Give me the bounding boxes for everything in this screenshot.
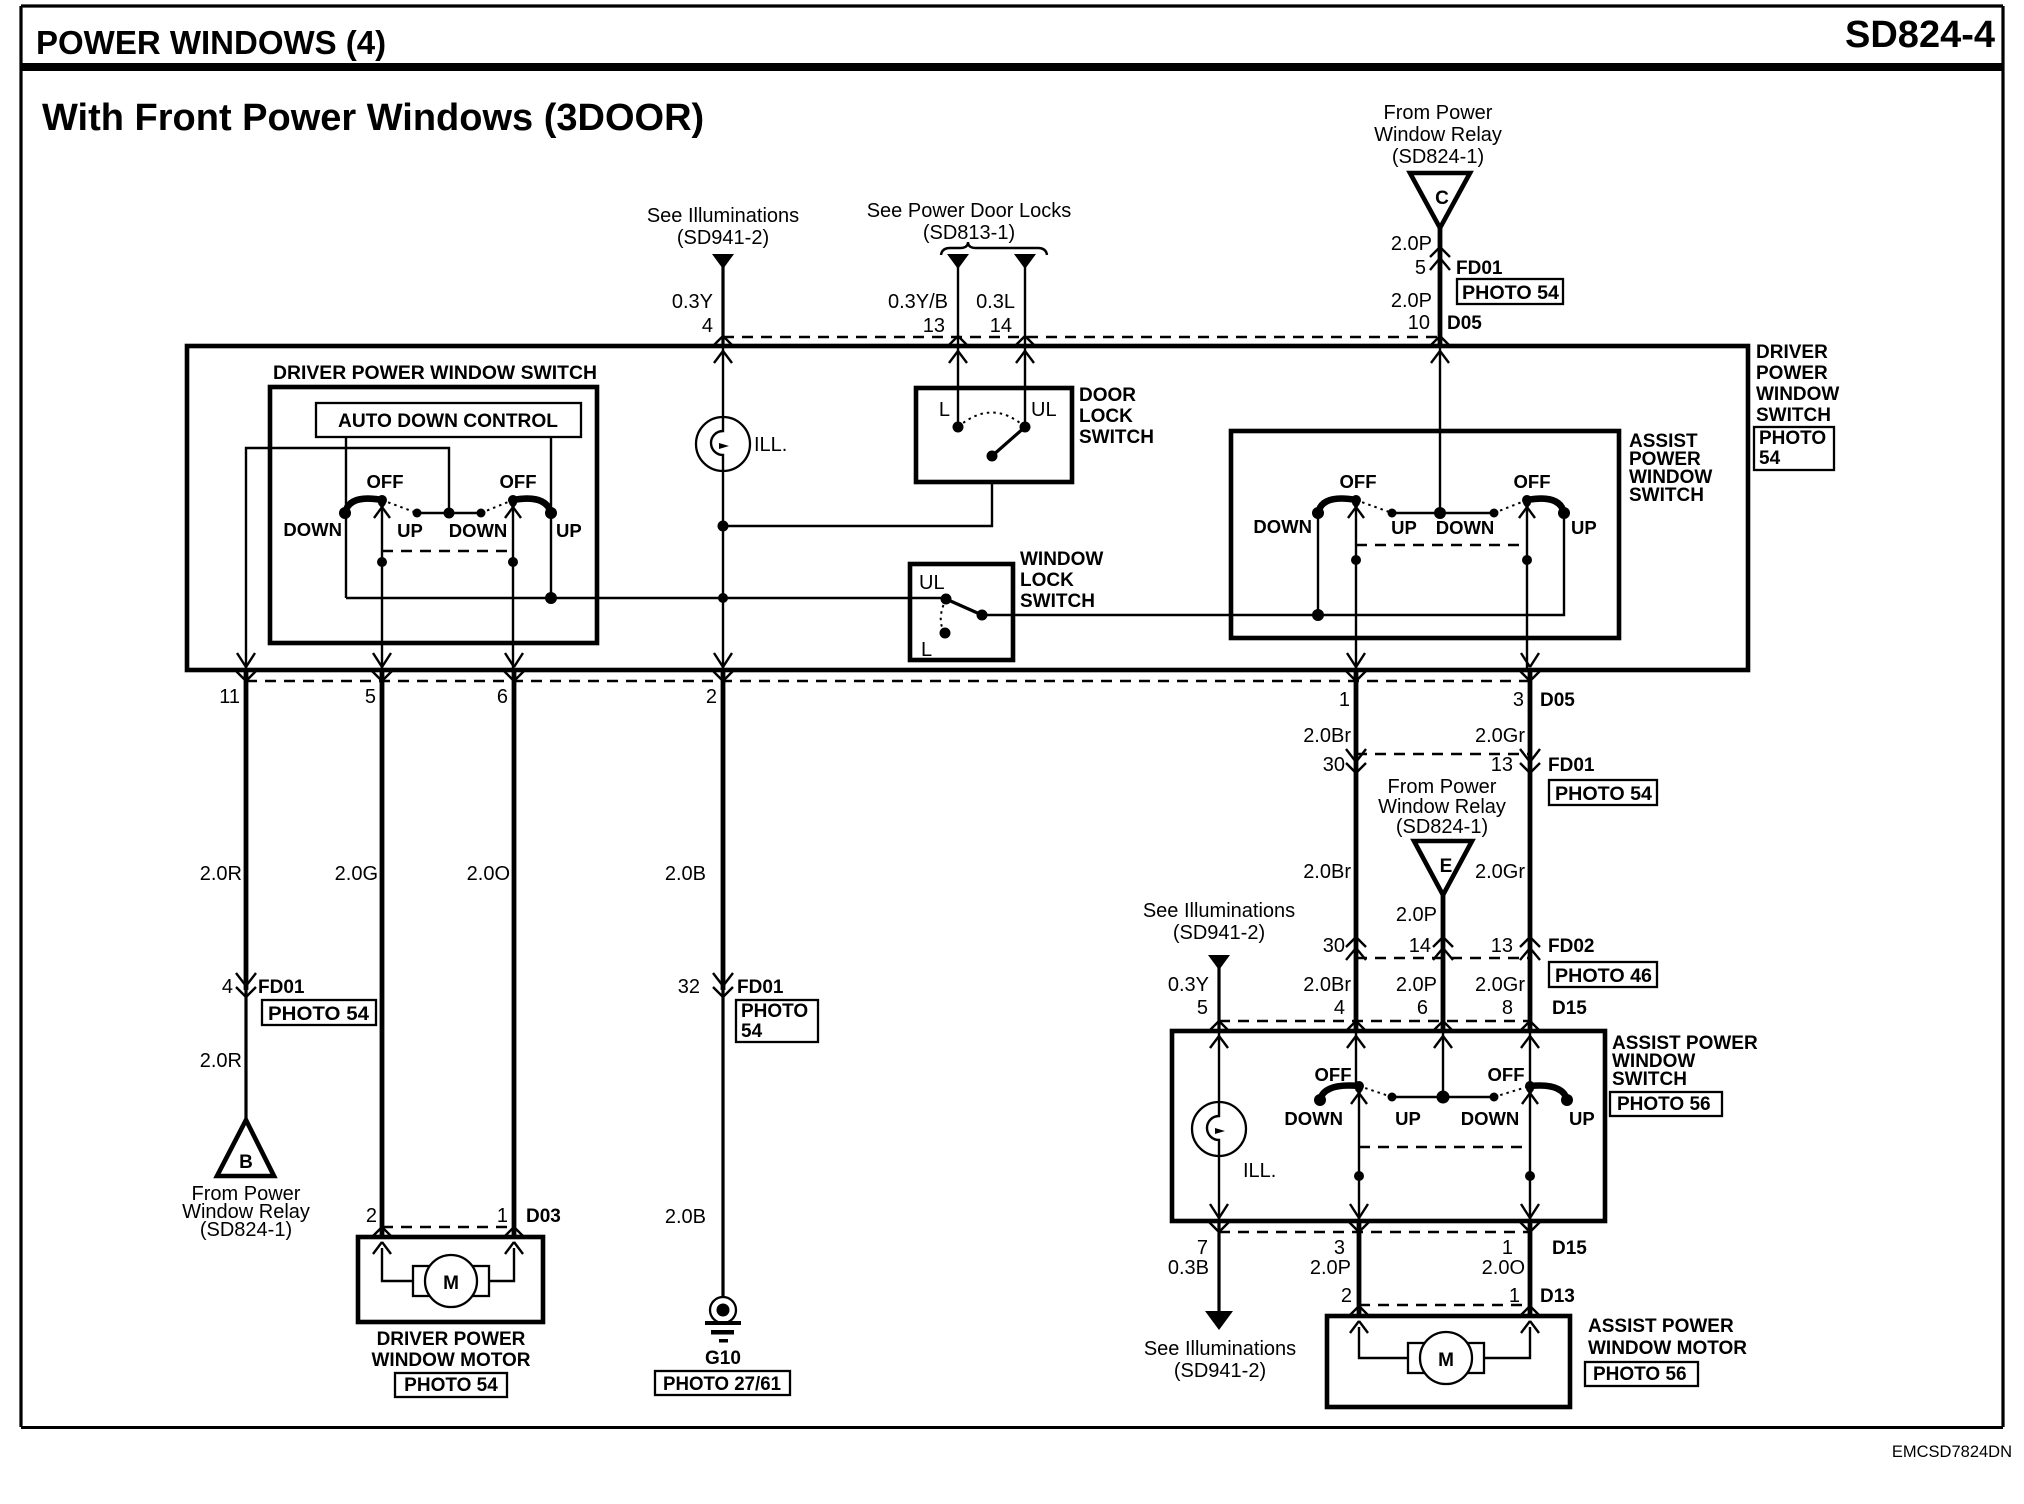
L contact dot (940, 628, 951, 639)
svg-text:7: 7 (1197, 1237, 1208, 1259)
up contact dot (1558, 507, 1570, 519)
svg-text:PHOTO 54: PHOTO 54 (1462, 283, 1559, 304)
off pivot dot (508, 495, 518, 505)
dashed throw arc (958, 413, 1025, 428)
svg-text:DRIVER POWER WINDOW SWITCH: DRIVER POWER WINDOW SWITCH (273, 363, 597, 384)
dashed throw arc (941, 599, 946, 633)
svg-text:DOOR: DOOR (1079, 385, 1136, 406)
svg-text:1: 1 (1509, 1285, 1520, 1307)
svg-text:2: 2 (706, 686, 717, 708)
wire rocker1 off to pin 5 (381, 500, 383, 670)
wire to window lock switch UL (346, 597, 946, 599)
svg-text:PHOTO 54: PHOTO 54 (404, 1375, 498, 1396)
entry connector pin 4 (712, 336, 734, 363)
photo 56 box (motor) (1585, 1362, 1698, 1386)
wire off1 to pin 3 (1358, 1086, 1360, 1221)
wire 2.0R pin 11 (244, 670, 249, 990)
svg-text:M: M (443, 1273, 459, 1294)
off pivot dot (1351, 495, 1361, 505)
svg-text:UP: UP (397, 520, 423, 541)
wire 2.0O pin 6 (512, 670, 517, 1237)
svg-text:2.0Br: 2.0Br (1303, 861, 1351, 883)
svg-text:32: 32 (678, 976, 700, 998)
photo 56 box (switch) (1610, 1092, 1722, 1116)
connector FD01 pin 13 (1520, 749, 1540, 773)
svg-text:0.3Y/B: 0.3Y/B (888, 291, 948, 313)
svg-text:54: 54 (741, 1021, 763, 1042)
inner box (270, 387, 597, 643)
svg-text:54: 54 (1759, 448, 1781, 469)
wire 0.3Y to pin 4 (721, 266, 724, 346)
svg-text:AUTO DOWN CONTROL: AUTO DOWN CONTROL (338, 411, 558, 432)
switch arm (992, 427, 1025, 456)
svg-text:2.0Br: 2.0Br (1303, 725, 1351, 747)
dashed connector line FD01 (1356, 753, 1530, 755)
wire 2.0P pin 3 to motor (1357, 1221, 1362, 1316)
wire pin 4 to off1 (1355, 1033, 1357, 1086)
svg-text:2.0O: 2.0O (467, 863, 510, 885)
entry connector pin 13 (947, 336, 969, 363)
svg-text:OFF: OFF (1514, 471, 1551, 492)
down contact dot (477, 509, 486, 518)
wire 2.0Br pin 1 (1354, 670, 1359, 1031)
photo 54 box (motor) (395, 1373, 507, 1397)
svg-text:2.0G: 2.0G (335, 863, 378, 885)
svg-text:30: 30 (1323, 754, 1345, 776)
photo 54 box (driver switch) (1754, 427, 1834, 470)
relay triangle E (1414, 841, 1472, 895)
common contact dot (977, 610, 988, 621)
svg-text:UP: UP (1571, 517, 1597, 538)
svg-text:2.0P: 2.0P (1396, 904, 1437, 926)
svg-text:3: 3 (1334, 1237, 1345, 1259)
motor M circle (425, 1255, 477, 1307)
svg-text:D05: D05 (1447, 313, 1482, 334)
wire 0.3Y to pin 5 (1217, 967, 1220, 1031)
arrow from illuminations (712, 254, 734, 269)
svg-text:2.0P: 2.0P (1391, 233, 1432, 255)
svg-text:SWITCH: SWITCH (1079, 427, 1154, 448)
svg-text:14: 14 (990, 315, 1012, 337)
svg-text:OFF: OFF (1340, 471, 1377, 492)
svg-text:D03: D03 (526, 1206, 561, 1227)
wire rocker1 off to pin 1 (1355, 500, 1357, 670)
svg-text:2.0Gr: 2.0Gr (1475, 974, 1525, 996)
svg-text:C: C (1435, 188, 1449, 209)
wire 2.0B pin 2 (721, 670, 726, 990)
svg-text:DRIVER: DRIVER (1756, 342, 1828, 363)
svg-text:5: 5 (1197, 997, 1208, 1019)
svg-text:OFF: OFF (1488, 1064, 1525, 1085)
svg-text:M: M (1438, 1350, 1454, 1371)
entry connector pin 10 (1429, 336, 1451, 363)
UL contact dot (1020, 422, 1031, 433)
svg-text:G10: G10 (705, 1348, 741, 1369)
entry connector pin 2 (371, 1227, 393, 1254)
photo 54 box (FD01 ground wire) (736, 1000, 818, 1042)
svg-text:14: 14 (1409, 935, 1431, 957)
svg-text:13: 13 (923, 315, 945, 337)
wire pin11 feed link (246, 448, 449, 670)
arrow power door locks wire 13 (947, 254, 969, 269)
rocker switch 2 (assist, driver side) (1440, 512, 1494, 514)
svg-text:DOWN: DOWN (1253, 516, 1312, 537)
arrow from illuminations mid (1208, 955, 1230, 970)
svg-text:PHOTO 27/61: PHOTO 27/61 (663, 1374, 781, 1395)
svg-text:UP: UP (556, 520, 582, 541)
svg-text:8: 8 (1502, 997, 1513, 1019)
UL contact dot (941, 594, 952, 605)
wire pin 8 to off2 (1529, 1033, 1531, 1086)
connector FD01 pin 32 (713, 973, 733, 997)
svg-text:ILL.: ILL. (754, 434, 787, 456)
svg-text:2: 2 (366, 1205, 377, 1227)
svg-text:(SD824-1): (SD824-1) (200, 1219, 292, 1241)
brace under door locks label (941, 242, 1047, 255)
svg-text:UP: UP (1391, 517, 1417, 538)
svg-text:DOWN: DOWN (449, 520, 508, 541)
wire 2.0G pin 5 (380, 670, 385, 1237)
entry connector pin 1 (1519, 1306, 1541, 1333)
svg-text:(SD824-1): (SD824-1) (1392, 146, 1484, 168)
svg-text:1: 1 (1339, 689, 1350, 711)
svg-text:2.0B: 2.0B (665, 863, 706, 885)
svg-text:UL: UL (1031, 399, 1057, 421)
arrow power door locks wire 14 (1014, 254, 1036, 269)
rocker arm arc (345, 499, 382, 513)
svg-text:DOWN: DOWN (283, 519, 342, 540)
svg-text:PHOTO 56: PHOTO 56 (1593, 1364, 1687, 1385)
motor brush left (413, 1266, 432, 1296)
off pivot dot (1522, 495, 1532, 505)
svg-text:11: 11 (219, 686, 240, 708)
wire rocker2 off to pin 3 (1526, 500, 1528, 670)
wire down contact to lock line (1317, 513, 1319, 615)
up contact dot (1388, 509, 1397, 518)
svg-text:E: E (1440, 856, 1453, 877)
off pivot dot (377, 495, 387, 505)
svg-text:With Front Power Windows (3DOO: With Front Power Windows (3DOOR) (42, 97, 704, 139)
svg-text:LOCK: LOCK (1020, 570, 1074, 591)
junction dot ill to door lock (718, 521, 729, 532)
motor internal wires (1359, 1327, 1530, 1358)
rocker switch 2 (assist unit) (1443, 1096, 1494, 1098)
dotted off to up (1356, 500, 1392, 513)
svg-text:2.0R: 2.0R (200, 1050, 242, 1072)
motor internal wires (382, 1248, 514, 1281)
connector FD01 pin 5 (1430, 247, 1450, 270)
svg-text:2.0Gr: 2.0Gr (1475, 861, 1525, 883)
dashed connector line D05 bottom (246, 680, 1530, 682)
dashed connector line D15 bottom (1219, 1231, 1530, 1233)
wire 2.0Gr pin 3 (1528, 670, 1533, 1031)
svg-text:0.3L: 0.3L (976, 291, 1015, 313)
mechanical linkage dashed (382, 550, 513, 552)
bottom border (21, 1426, 2003, 1429)
svg-text:OFF: OFF (1315, 1064, 1352, 1085)
svg-text:From Power: From Power (1384, 102, 1493, 124)
dashed connector line FD02 (1356, 957, 1530, 959)
svg-text:PHOTO: PHOTO (1759, 428, 1826, 449)
svg-text:2.0B: 2.0B (665, 1206, 706, 1228)
L contact dot (953, 422, 964, 433)
up contact dot (545, 507, 557, 519)
link up contact to common (417, 512, 449, 514)
svg-text:13: 13 (1491, 754, 1513, 776)
svg-text:(SD941-2): (SD941-2) (1173, 922, 1265, 944)
motor M circle (1420, 1332, 1472, 1384)
svg-text:DOWN: DOWN (1436, 517, 1495, 538)
relay triangle B (217, 1120, 274, 1176)
svg-text:UL: UL (919, 572, 945, 594)
svg-text:See Illuminations: See Illuminations (1143, 900, 1295, 922)
svg-text:L: L (939, 399, 950, 421)
svg-text:DRIVER POWER: DRIVER POWER (377, 1329, 526, 1350)
svg-text:UP: UP (1569, 1108, 1595, 1129)
svg-text:4: 4 (1334, 997, 1345, 1019)
header rule (21, 63, 2003, 71)
svg-text:2.0P: 2.0P (1396, 974, 1437, 996)
svg-text:WINDOW: WINDOW (1020, 549, 1103, 570)
svg-text:6: 6 (497, 686, 508, 708)
svg-text:WINDOW MOTOR: WINDOW MOTOR (1588, 1338, 1747, 1359)
rocker arm arc (513, 499, 551, 513)
photo 54 box (relay C) (1457, 279, 1563, 304)
connector FD02 pin 13 (1520, 937, 1540, 960)
svg-text:0.3Y: 0.3Y (672, 291, 713, 313)
svg-text:FD01: FD01 (1456, 258, 1503, 279)
wire rocker2 off to pin 6 (512, 500, 514, 670)
svg-text:POWER WINDOWS (4): POWER WINDOWS (4) (36, 24, 386, 61)
dashed connector line D13 (1359, 1304, 1530, 1306)
wire 2.0O pin 1 to motor (1528, 1221, 1533, 1316)
svg-text:WINDOW MOTOR: WINDOW MOTOR (371, 1350, 530, 1371)
wire ADC to rocker2 up contact (550, 437, 552, 598)
common node dot (1434, 507, 1446, 519)
motor brush right (470, 1266, 489, 1296)
connector FD01 pin 30 (1346, 749, 1366, 773)
svg-text:FD01: FD01 (737, 977, 784, 998)
mechanical linkage dashed (1356, 544, 1527, 546)
common node dot (444, 508, 455, 519)
photo 54 box (FD01 left) (262, 1000, 376, 1025)
svg-text:D05: D05 (1540, 690, 1575, 711)
svg-text:2.0O: 2.0O (1482, 1257, 1525, 1279)
down contact stub (1314, 1094, 1326, 1106)
entry connector pin 1 (503, 1227, 525, 1254)
svg-text:UP: UP (1395, 1108, 1421, 1129)
svg-text:PHOTO 54: PHOTO 54 (268, 1004, 369, 1025)
down contact dot (1490, 509, 1499, 518)
svg-text:SWITCH: SWITCH (1629, 485, 1704, 506)
svg-text:2.0Br: 2.0Br (1303, 974, 1351, 996)
svg-text:D15: D15 (1552, 1238, 1587, 1259)
svg-text:See Illuminations: See Illuminations (1144, 1338, 1296, 1360)
see illuminations arrow bottom (1205, 1311, 1233, 1330)
link common to down contact (449, 512, 481, 514)
svg-text:Window Relay: Window Relay (1378, 796, 1506, 818)
illumination wire assist (1218, 1033, 1220, 1221)
svg-text:PHOTO 46: PHOTO 46 (1555, 966, 1652, 987)
svg-text:EMCSD7824DN: EMCSD7824DN (1892, 1443, 2012, 1461)
relay triangle C (1410, 173, 1470, 228)
svg-text:PHOTO 54: PHOTO 54 (1555, 784, 1652, 805)
svg-text:1: 1 (497, 1205, 508, 1227)
rocker arm arc (1527, 499, 1564, 513)
down contact dot (1312, 507, 1324, 519)
svg-text:(SD813-1): (SD813-1) (923, 222, 1015, 244)
ILL lamp assist switch (1192, 1102, 1246, 1156)
dashed connector line D03 (382, 1226, 514, 1228)
exit connectors bottom of outer box (235, 653, 257, 681)
svg-text:B: B (239, 1152, 253, 1173)
common contact dot (987, 451, 998, 462)
ground G10 (710, 1297, 736, 1323)
svg-text:OFF: OFF (367, 471, 404, 492)
dotted down to off (481, 500, 513, 513)
photo 46 box (1549, 962, 1657, 987)
dotted down to off (1494, 500, 1527, 513)
svg-text:See Illuminations: See Illuminations (647, 205, 799, 227)
connector FD01 pin 4 (236, 973, 256, 997)
rocker arm arc (1318, 499, 1356, 513)
junction dot ill wire (718, 593, 728, 603)
svg-text:LOCK: LOCK (1079, 406, 1133, 427)
svg-text:L: L (921, 639, 932, 661)
svg-text:WINDOW: WINDOW (1756, 384, 1839, 405)
svg-text:D13: D13 (1540, 1286, 1575, 1307)
svg-text:3: 3 (1513, 689, 1524, 711)
link to common (1392, 512, 1440, 514)
svg-text:2: 2 (1341, 1285, 1352, 1307)
svg-text:0.3B: 0.3B (1168, 1257, 1209, 1279)
entry connector pin 14 (1014, 336, 1036, 363)
down contact dot (339, 507, 351, 519)
svg-text:(SD941-2): (SD941-2) (677, 227, 769, 249)
wire 0.3L to pin 14 (1024, 266, 1026, 346)
svg-text:5: 5 (1415, 257, 1426, 279)
motor brush right (1465, 1343, 1484, 1373)
dashed connector line D15 top (1219, 1020, 1530, 1022)
switch arm (946, 599, 982, 615)
junction dot rocker2 up line (545, 592, 557, 604)
svg-text:2.0P: 2.0P (1391, 290, 1432, 312)
off pivot dot (1354, 1081, 1364, 1091)
svg-text:Window Relay: Window Relay (1374, 124, 1502, 146)
svg-text:2.0P: 2.0P (1310, 1257, 1351, 1279)
svg-text:4: 4 (702, 315, 713, 337)
dotted off to up (382, 500, 417, 513)
svg-text:FD01: FD01 (1548, 755, 1595, 776)
photo 27/61 box (655, 1371, 790, 1395)
svg-text:(SD824-1): (SD824-1) (1396, 816, 1488, 838)
wire 2.0P from relay E (1441, 895, 1446, 1031)
svg-text:ASSIST POWER: ASSIST POWER (1588, 1316, 1734, 1337)
svg-text:PHOTO 56: PHOTO 56 (1617, 1094, 1711, 1115)
svg-text:DOWN: DOWN (1461, 1108, 1520, 1129)
svg-text:From Power: From Power (1388, 776, 1497, 798)
illumination wire in driver switch (722, 348, 724, 670)
svg-text:ILL.: ILL. (1243, 1160, 1276, 1182)
wire 2.0P from relay C (1438, 228, 1443, 346)
svg-text:6: 6 (1417, 997, 1428, 1019)
svg-text:10: 10 (1408, 312, 1430, 334)
mechanical linkage dashed (1359, 1146, 1530, 1148)
entry connector pin 2 (1348, 1306, 1370, 1333)
ILL lamp driver switch (696, 417, 750, 471)
entry connectors D15 (1208, 1021, 1230, 1048)
svg-text:DOWN: DOWN (1284, 1108, 1343, 1129)
svg-text:See Power Door Locks: See Power Door Locks (867, 200, 1072, 222)
svg-text:4: 4 (222, 976, 233, 998)
svg-text:D15: D15 (1552, 998, 1587, 1019)
svg-text:SD824-4: SD824-4 (1845, 14, 1995, 56)
wire pin10 to common (1439, 348, 1441, 513)
svg-text:2.0Gr: 2.0Gr (1475, 725, 1525, 747)
svg-text:0.3Y: 0.3Y (1168, 974, 1209, 996)
svg-text:SWITCH: SWITCH (1756, 405, 1831, 426)
svg-text:OFF: OFF (500, 471, 537, 492)
wire pin 6 to common (1442, 1033, 1444, 1097)
junction dot assist down1 (1312, 609, 1324, 621)
svg-text:2.0R: 2.0R (200, 863, 242, 885)
wire 0.3B below pin 7 (1217, 1221, 1220, 1313)
wire window lock common to assist switch (982, 513, 1564, 615)
wire 0.3Y/B to pin 13 (957, 266, 959, 346)
connector FD02 pin 30 (1346, 937, 1366, 960)
svg-text:SWITCH: SWITCH (1020, 591, 1095, 612)
photo 54 box (FD01 right) (1549, 780, 1657, 805)
wire pin14 to UL contact (1024, 348, 1026, 427)
svg-text:30: 30 (1323, 935, 1345, 957)
up contact dot (413, 509, 422, 518)
svg-text:SWITCH: SWITCH (1612, 1069, 1687, 1090)
wire ill junction to door lock common (723, 482, 992, 526)
wire pin13 to L contact (957, 348, 959, 427)
svg-text:FD02: FD02 (1548, 936, 1594, 957)
svg-text:5: 5 (365, 686, 376, 708)
wire off2 to pin 1 (1529, 1086, 1531, 1221)
svg-text:PHOTO: PHOTO (741, 1001, 808, 1022)
wire ADC to rocker1 down contact (345, 437, 347, 598)
svg-text:13: 13 (1491, 935, 1513, 957)
motor brush left (1408, 1343, 1427, 1373)
AUTO DOWN CONTROL box (316, 403, 581, 437)
svg-text:1: 1 (1502, 1237, 1513, 1259)
svg-text:POWER: POWER (1756, 363, 1828, 384)
exit connectors D15 bottom (1208, 1204, 1230, 1232)
dashed connector line D05 top (723, 336, 1440, 338)
svg-text:(SD941-2): (SD941-2) (1174, 1360, 1266, 1382)
connector FD02 pin 14 (1433, 937, 1453, 960)
svg-text:FD01: FD01 (258, 977, 305, 998)
